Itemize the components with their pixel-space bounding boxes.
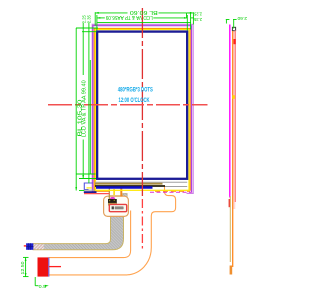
dim 05 tick — [35, 285, 38, 287]
side body pink fill — [233, 31, 235, 209]
wire gray FPC ribbon folded (hatched) — [33, 196, 123, 250]
svg-text:2.25: 2.25 — [194, 10, 202, 16]
side FPC tip — [230, 266, 233, 275]
wire FPC outline inner tail edge — [48, 211, 130, 258]
side dark cap — [232, 27, 236, 31]
side dim bracket right — [233, 19, 237, 21]
red centerline of tail — [49, 266, 61, 268]
dim line third top — [97, 22, 191, 24]
red stiffener at tail end — [38, 257, 49, 276]
driver IC block — [108, 199, 117, 204]
svg-text:2.60: 2.60 — [237, 15, 247, 21]
left cluster vline a — [82, 23, 84, 76]
yellow tick — [113, 189, 115, 195]
tan tick — [108, 189, 110, 200]
tan band — [95, 183, 163, 185]
tp outline violet rect — [92, 24, 193, 193]
ext line top left — [94, 12, 96, 25]
tick stiffener bottom — [23, 276, 29, 278]
left hline top — [76, 27, 98, 29]
side FPC tail tan line — [229, 196, 231, 262]
tab navy seg — [84, 191, 97, 193]
ext line aa right — [186, 15, 188, 30]
stamp box — [109, 204, 126, 211]
dim tick right small2 — [191, 17, 194, 19]
tab gray seg — [84, 189, 95, 191]
tick stiffener top — [23, 256, 29, 258]
svg-text:2.35: 2.35 — [87, 15, 93, 23]
side salmon line — [234, 31, 236, 203]
svg-text:0.5: 0.5 — [39, 284, 47, 290]
va navy rect — [97, 32, 187, 179]
red vertical centerline lower — [141, 199, 143, 250]
side red blob top — [234, 39, 236, 44]
wire FPC outline right side — [48, 186, 175, 275]
left cluster vline b — [88, 23, 90, 184]
left hline 2 — [82, 31, 97, 33]
bottom-left hline va — [76, 173, 96, 175]
connector blue stiffener — [26, 243, 33, 250]
svg-text:480*RGB*3 DOTS: 480*RGB*3 DOTS — [118, 86, 153, 93]
FPC collar around stamp — [104, 196, 129, 216]
tab blue step bottom-left — [84, 183, 93, 190]
side red fold seg — [229, 199, 231, 207]
ext line aa left — [96, 15, 98, 30]
red horizontal centerline — [48, 104, 208, 106]
blue FPC bonding band — [96, 186, 153, 189]
connector magenta dot — [110, 197, 115, 200]
svg-text:2.35: 2.35 — [194, 16, 202, 22]
dim line BL top — [95, 12, 127, 14]
side yellow blob — [233, 95, 235, 99]
side magenta line — [229, 25, 231, 198]
gray line under VA — [95, 181, 187, 183]
green arrows — [25, 12, 194, 287]
red line under tab — [84, 193, 110, 195]
dim tick right vsmall — [186, 13, 188, 18]
black band — [95, 185, 165, 187]
dim 05 vline — [34, 277, 36, 286]
gray line right — [165, 186, 187, 188]
bottom-left hline 3 — [79, 190, 84, 192]
svg-text:12.50: 12.50 — [20, 261, 26, 274]
ext line yellow right — [190, 12, 192, 29]
orange tick — [120, 186, 122, 197]
ribbon red hatch zone near connector — [34, 244, 44, 249]
left dim BL vline — [75, 28, 77, 191]
gray flap top right of collar — [123, 193, 127, 198]
left cluster vline c — [89, 60, 91, 174]
ext line top right — [192, 12, 194, 24]
svg-text:BL 60.60: BL 60.60 — [130, 9, 158, 15]
bl inner yellow rect — [95, 30, 189, 191]
svg-text:LCD VA & TP AA 99.40: LCD VA & TP AA 99.40 — [81, 80, 87, 137]
bottom-left hline 2 — [79, 178, 96, 180]
green dim texts — [20, 9, 247, 290]
side orange line — [232, 31, 234, 267]
red vertical centerline — [141, 8, 143, 196]
dim line AA top — [97, 17, 105, 19]
green dims — [23, 12, 237, 286]
lcd outline purple rect — [93, 26, 191, 193]
svg-text:12:00 O'CLOCK: 12:00 O'CLOCK — [119, 97, 150, 104]
dim tick right small1 — [187, 12, 190, 14]
side dim bracket left — [226, 19, 230, 21]
red tick at connector — [24, 245, 26, 247]
tab yellow seg — [87, 187, 93, 189]
svg-text:LCD VA & TP AA56.09: LCD VA & TP AA56.09 — [106, 14, 153, 20]
dim red stiffener vline — [25, 257, 27, 276]
bl outline orange rect — [94, 28, 190, 191]
magenta dashes bottom right — [150, 191, 192, 193]
